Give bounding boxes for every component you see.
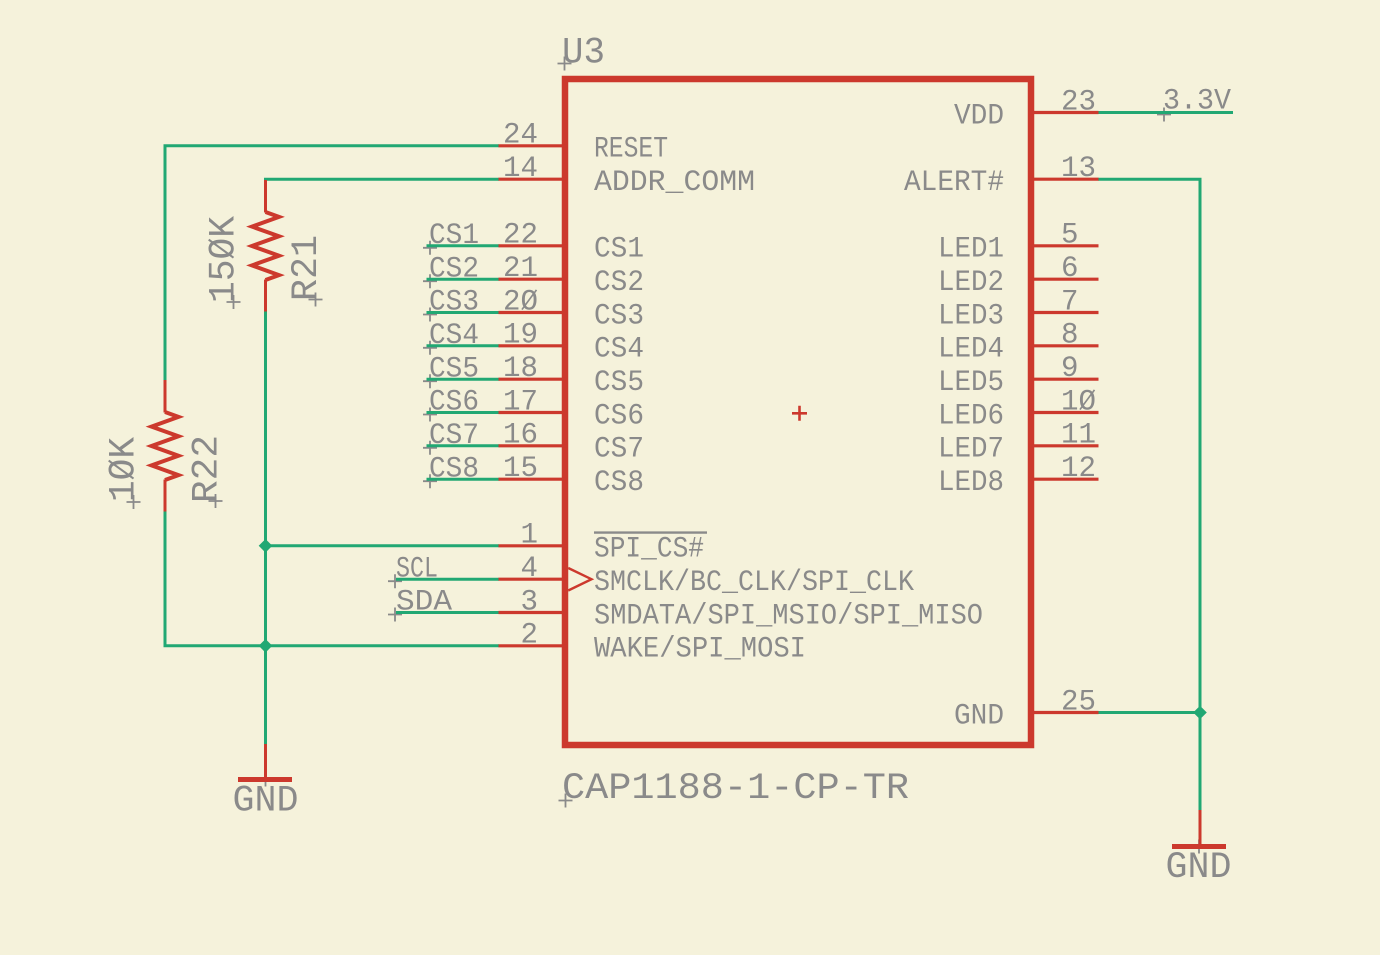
svg-text:LED6: LED6	[938, 399, 1004, 433]
wire GND drop (right)	[1199, 713, 1202, 812]
svg-text:CS1: CS1	[594, 233, 644, 267]
svg-text:VDD: VDD	[954, 99, 1004, 133]
svg-text:5: 5	[1061, 219, 1079, 253]
pin 23 VDD (right stub)	[1029, 111, 1099, 114]
svg-text:17: 17	[503, 385, 538, 419]
svg-text:21: 21	[503, 252, 538, 286]
wire R21 bottom to GND rail	[264, 311, 267, 647]
svg-text:CS7: CS7	[594, 433, 644, 467]
ground symbol origin cross (right)	[1192, 840, 1206, 854]
svg-text:RESET: RESET	[594, 133, 668, 167]
svg-text:8: 8	[1061, 319, 1079, 353]
wire net RESET: pin24 to R22 top	[165, 146, 499, 381]
svg-text:CS1: CS1	[429, 219, 479, 253]
pin 1 SPI_CS# (left stub)	[499, 544, 568, 547]
svg-text:1ØK: 1ØK	[104, 437, 146, 502]
resistor R21 zigzag body	[252, 212, 279, 280]
wire net ADDR_COMM: pin14 to R21 top	[266, 179, 500, 181]
R21 name label R21	[309, 293, 323, 307]
pin 15 CS8 (left stub)	[499, 478, 568, 481]
IC U3 name label U3	[558, 57, 572, 71]
wire R22 bottom to WAKE net	[165, 511, 499, 646]
pin 4 clock symbol	[568, 568, 591, 591]
pin 7 LED3 (right stub)	[1029, 311, 1099, 314]
svg-text:ALERT#: ALERT#	[904, 166, 1004, 200]
wire net SPI_CS#: junction to pin 1	[266, 544, 500, 547]
svg-text:GND: GND	[1166, 847, 1232, 889]
svg-text:CS8: CS8	[429, 452, 479, 486]
svg-text:19: 19	[503, 319, 538, 353]
svg-text:24: 24	[503, 119, 538, 153]
svg-text:15: 15	[503, 452, 538, 486]
pin 25 GND (right stub)	[1029, 711, 1099, 714]
junction WAKE/GND rail	[259, 639, 273, 653]
pin 4 SMCLK/BC_CLK/SPI_CLK (left stub)	[499, 578, 568, 581]
svg-text:ADDR_COMM: ADDR_COMM	[594, 166, 755, 200]
svg-text:SMDATA/SPI_MSIO/SPI_MISO: SMDATA/SPI_MSIO/SPI_MISO	[594, 599, 983, 633]
svg-text:13: 13	[1061, 152, 1096, 186]
svg-text:R22: R22	[187, 435, 229, 503]
ground GND (right): lead, bar, label	[1199, 810, 1202, 846]
pin 20 CS3 (left stub)	[499, 311, 568, 314]
svg-text:22: 22	[503, 219, 538, 253]
R22 name label R22	[209, 494, 223, 508]
svg-text:15ØK: 15ØK	[204, 216, 246, 303]
junction GND net (right)	[1193, 706, 1207, 720]
net label origin cross 3.3V	[1157, 108, 1171, 122]
svg-text:7: 7	[1061, 285, 1079, 319]
wire net GND: pin 25 to junction	[1098, 711, 1200, 714]
wire net SDA to pin 3	[396, 611, 499, 614]
R22 value label 10K	[127, 495, 141, 509]
svg-text:3: 3	[521, 585, 539, 619]
pin 3 SMDATA/SPI_MSIO/SPI_MISO (left stub)	[499, 611, 568, 614]
resistor R21 leads	[264, 180, 267, 213]
svg-text:6: 6	[1061, 252, 1079, 286]
svg-text:4: 4	[521, 552, 539, 586]
pin 21 CS2 (left stub)	[499, 278, 568, 281]
pin 8 LED4 (right stub)	[1029, 344, 1099, 347]
wire net ALERT#: pin 13 down right side	[1098, 179, 1200, 712]
junction SPI_CS#/R21 rail	[259, 539, 273, 553]
wire net 3.3V from pin 23	[1098, 111, 1233, 114]
ground GND (left): lead, bar, label	[264, 744, 267, 779]
svg-text:CS2: CS2	[429, 252, 479, 286]
svg-text:LED7: LED7	[938, 433, 1004, 467]
svg-text:SPI_CS#: SPI_CS#	[594, 533, 704, 567]
pin 5 LED1 (right stub)	[1029, 244, 1099, 247]
svg-text:3.3V: 3.3V	[1163, 85, 1231, 119]
wire net SCL to pin 4	[396, 578, 499, 581]
pin 11 LED7 (right stub)	[1029, 444, 1099, 447]
svg-text:CS3: CS3	[429, 286, 479, 320]
pin 22 CS1 (left stub)	[499, 244, 568, 247]
pin 2 WAKE/SPI_MOSI (left stub)	[499, 644, 568, 647]
pin 9 LED5 (right stub)	[1029, 378, 1099, 381]
svg-text:12: 12	[1061, 452, 1096, 486]
svg-text:CS6: CS6	[594, 399, 644, 433]
svg-text:16: 16	[503, 419, 538, 453]
svg-text:CS5: CS5	[594, 366, 644, 400]
svg-text:CS3: CS3	[594, 299, 644, 333]
svg-text:25: 25	[1061, 685, 1096, 719]
IC U3 value label CAP1188-1-CP-TR	[559, 794, 573, 808]
svg-text:LED2: LED2	[938, 266, 1004, 300]
pin 19 CS4 (left stub)	[499, 344, 568, 347]
pin 24 RESET (left stub)	[499, 144, 568, 147]
pin 17 CS6 (left stub)	[499, 411, 568, 414]
svg-text:LED3: LED3	[938, 299, 1004, 333]
pin 10 LED6 (right stub)	[1029, 411, 1099, 414]
svg-text:1Ø: 1Ø	[1061, 385, 1096, 419]
svg-text:CS4: CS4	[429, 319, 479, 353]
svg-text:GND: GND	[954, 699, 1004, 733]
pin 14 ADDR_COMM (left stub)	[499, 178, 568, 181]
svg-text:18: 18	[503, 352, 538, 386]
svg-text:U3: U3	[562, 33, 605, 75]
svg-text:CAP1188-1-CP-TR: CAP1188-1-CP-TR	[562, 768, 909, 810]
pin 6 LED2 (right stub)	[1029, 278, 1099, 281]
svg-text:SMCLK/BC_CLK/SPI_CLK: SMCLK/BC_CLK/SPI_CLK	[594, 566, 914, 600]
svg-text:LED5: LED5	[938, 366, 1004, 400]
pin 16 CS7 (left stub)	[499, 444, 568, 447]
pin 12 LED8 (right stub)	[1029, 478, 1099, 481]
svg-text:CS7: CS7	[429, 419, 479, 453]
svg-text:GND: GND	[233, 781, 299, 823]
wire stubs under CS1..CS8 net labels	[427, 244, 500, 247]
net label origin cross CS1..CS8, SCL, SDA	[423, 241, 437, 255]
svg-text:11: 11	[1061, 419, 1096, 453]
svg-text:CS6: CS6	[429, 386, 479, 420]
svg-text:2Ø: 2Ø	[503, 285, 538, 319]
svg-text:CS4: CS4	[594, 333, 644, 367]
pin 13 ALERT# (right stub)	[1029, 178, 1099, 181]
svg-text:CS2: CS2	[594, 266, 644, 300]
svg-text:CS8: CS8	[594, 466, 644, 500]
svg-text:SDA: SDA	[396, 586, 452, 620]
svg-text:1: 1	[521, 519, 539, 553]
op-amp/IC U3 CAP1188 body outline	[565, 79, 1031, 745]
ground symbol origin cross (left)	[259, 773, 273, 787]
svg-text:WAKE/SPI_MOSI: WAKE/SPI_MOSI	[594, 633, 806, 667]
svg-text:LED1: LED1	[938, 233, 1004, 267]
svg-text:R21: R21	[286, 235, 328, 301]
resistor R22 leads	[164, 380, 167, 413]
svg-text:CS5: CS5	[429, 352, 479, 386]
IC U3 origin cross (center)	[792, 406, 807, 421]
svg-text:2: 2	[521, 619, 539, 653]
svg-text:LED8: LED8	[938, 466, 1004, 500]
svg-text:9: 9	[1061, 352, 1079, 386]
wire GND drop below junction (left)	[264, 646, 267, 745]
svg-text:SCL: SCL	[396, 552, 438, 586]
R21 value label 150K	[227, 295, 241, 309]
svg-text:LED4: LED4	[938, 333, 1004, 367]
svg-text:14: 14	[503, 152, 538, 186]
pin 18 CS5 (left stub)	[499, 378, 568, 381]
svg-text:23: 23	[1061, 85, 1096, 119]
resistor R22 zigzag body	[152, 412, 179, 480]
